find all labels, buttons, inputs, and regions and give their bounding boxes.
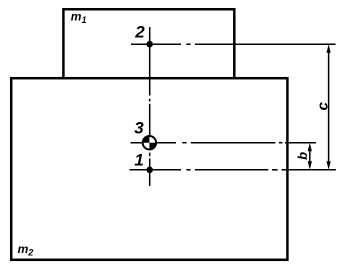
vertical centerline through points 1,2,3 <box>149 27 151 186</box>
svg-text:2: 2 <box>134 23 145 42</box>
node 3 (centre-of-gravity symbol) <box>143 136 156 149</box>
svg-text:b: b <box>295 152 310 160</box>
svg-text:3: 3 <box>134 119 144 138</box>
horizontal centerline through point 1 <box>130 169 336 171</box>
dimension b (vertical dimension line right side, short) <box>308 143 312 170</box>
dimension c (vertical dimension line right side) <box>327 44 331 170</box>
horizontal centerline through point 3 <box>131 142 316 144</box>
svg-text:1: 1 <box>134 151 143 170</box>
body m1 (small top rectangle) <box>63 9 234 78</box>
horizontal centerline through point 2 <box>131 43 336 45</box>
node 1 (point marker) <box>146 167 153 174</box>
node 2 (point marker) <box>146 41 153 48</box>
svg-text:c: c <box>314 102 331 111</box>
body m2 (large rectangle) <box>11 78 287 260</box>
